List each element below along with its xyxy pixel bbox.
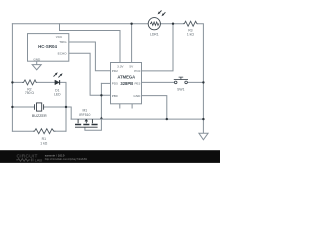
resistor R3 [183,21,198,36]
svg-text:sammie / 1619: sammie / 1619 [45,153,65,157]
component ATMEGA 328PB U1 box [111,63,142,104]
svg-text:PE3: PE3 [134,82,140,86]
LED D1 [54,72,63,96]
footer bar [0,150,220,163]
svg-text:LDR1: LDR1 [150,33,159,37]
junction dot SW1 right [202,81,204,83]
ground symbol below HC-SR04 [32,65,41,70]
wire ATMEGA GND to rail [142,96,167,120]
svg-text:1 kΩ: 1 kΩ [40,141,48,145]
MOSFET M1 IRF510 [75,109,98,128]
LDR arrows [159,11,161,13]
wire ATMEGA bottom stub 2 [131,104,133,108]
drain lead [77,119,79,123]
wire PC0 to divider tap [142,24,174,71]
svg-text:GND: GND [133,94,141,98]
photoresistor LDR1 [148,11,165,37]
svg-text:http://circuitlab.com/c/pbay7n: http://circuitlab.com/c/pbay7nb2k69 [45,157,88,161]
svg-text:ATMEGA: ATMEGA [117,75,135,80]
wire TRIG to PD2 [69,42,111,71]
svg-text:3.3V: 3.3V [117,64,124,68]
gate bar [75,126,98,128]
wire VCC riser HC-SR04 [59,24,61,31]
junction dot GND rail [166,118,168,120]
svg-text:TRIG: TRIG [59,40,67,44]
resistor R1 [33,129,55,146]
svg-text:IRF510: IRF510 [79,113,90,117]
junction dot PB0 net [100,94,102,96]
buzzer BZ1 (piezo) [32,103,47,118]
svg-text:ECHO: ECHO [58,51,68,55]
svg-text:PD5: PD5 [112,82,118,86]
junction dot rail right [202,118,204,120]
ground symbol right [199,133,208,140]
component HC-SR04 U2 box [28,34,69,62]
wire top 5V rail [12,23,148,25]
wire HC-SR04 GND stub [36,61,38,64]
junction dot left rail R2 [11,81,13,83]
wire buzzer line [12,106,66,108]
wire PE3 to SW1 [142,81,175,83]
wire PD5 branch [101,82,110,84]
svg-text:PD2: PD2 [112,69,118,73]
wire bottom rail left [12,130,33,132]
wire SW1 to right rail [188,81,204,83]
wire ATMEGA bottom stub 1 [119,104,121,108]
svg-text:LAB: LAB [35,157,43,162]
svg-text:PB0: PB0 [112,94,118,98]
svg-text:LED: LED [54,93,61,97]
wire 5V drop to ATMEGA [131,24,133,63]
channel bars [75,124,98,126]
svg-text:750 Ω: 750 Ω [25,91,35,95]
wire buzzer junction to drain rail [66,107,71,119]
gate wire crossing arrow [100,117,103,119]
svg-text:1 kΩ: 1 kΩ [187,32,195,36]
svg-text:PC0: PC0 [134,69,140,73]
wire bottom rail right of R1 [55,130,66,132]
wire R2 line from rail to LED [12,81,55,83]
pushbutton SW1 [174,77,188,91]
wire ECHO to PB0 [69,53,111,95]
junction dot divider tap [172,23,174,25]
junction dot 5V rail [130,23,132,25]
junction dot left rail buzzer [11,106,13,108]
wire drain rail [71,118,203,120]
LED arrows [54,74,57,77]
resistor R2 [22,80,37,95]
svg-text:GND: GND [33,57,41,61]
wire left rail [11,24,13,132]
body arrow lead [85,119,88,123]
svg-text:328PB: 328PB [120,81,133,86]
wire R3 to right rail [198,24,204,134]
wire LED cathode down [60,82,66,131]
source lead [91,119,93,123]
svg-text:VCC: VCC [56,35,63,39]
svg-text:BUZZER: BUZZER [32,114,47,118]
junction dot LED cathode net [65,106,67,108]
wire LDR to R3 [160,23,183,25]
wire VCC to 3.3V [60,31,121,63]
svg-text:HC-SR04: HC-SR04 [38,44,57,49]
wire gate vertical [85,83,102,130]
svg-text:SW1: SW1 [177,87,184,91]
